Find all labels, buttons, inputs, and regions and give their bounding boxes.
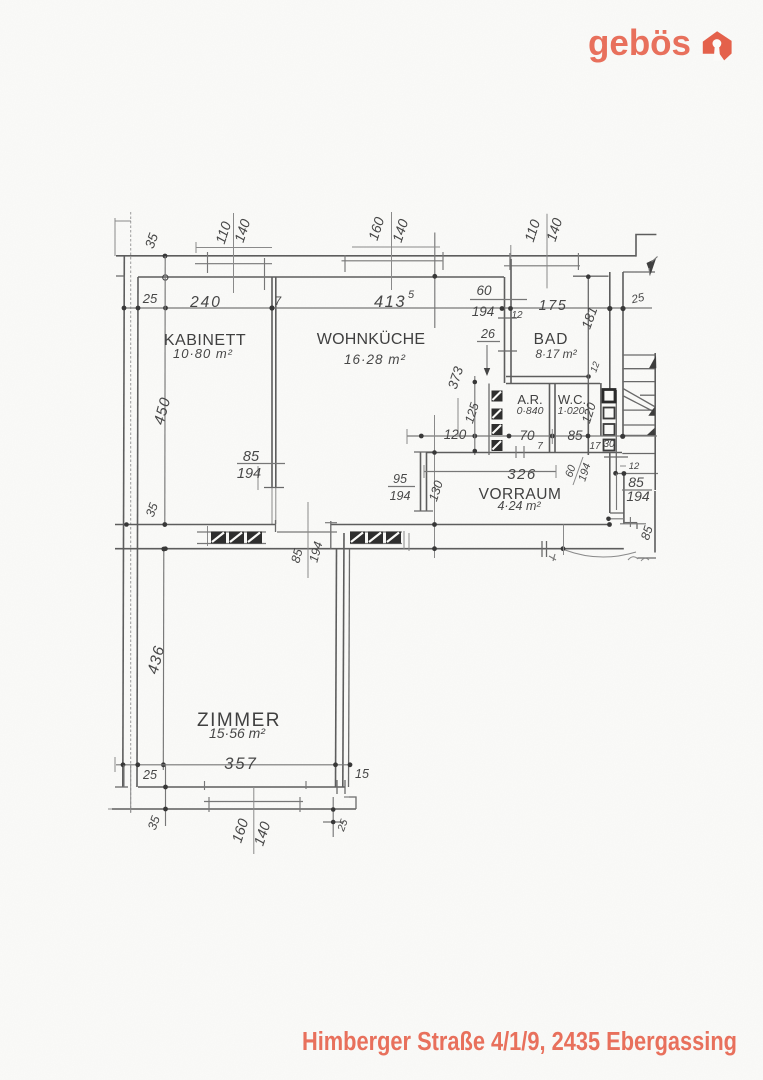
node dot bbox=[432, 450, 437, 455]
node dot bbox=[419, 434, 424, 439]
stair arrow 3 bbox=[647, 428, 655, 435]
svg-text:4·24 m²: 4·24 m² bbox=[497, 499, 541, 513]
node dot bbox=[472, 434, 477, 439]
node dot bbox=[162, 522, 167, 527]
node dot bbox=[136, 306, 141, 311]
svg-text:30: 30 bbox=[603, 439, 615, 450]
door jamb ticks terrace door bbox=[275, 520, 277, 532]
left shaft hatch block 1 bbox=[492, 391, 503, 402]
node dot bbox=[606, 517, 611, 522]
dimension line 326 bbox=[424, 471, 556, 473]
wall top window band line bbox=[195, 263, 272, 265]
node dot bbox=[333, 762, 338, 767]
window group1 edge tick bbox=[207, 526, 209, 546]
mini dim line over window2 bbox=[352, 246, 440, 248]
window sill line group2 bbox=[350, 531, 402, 533]
svg-text:85: 85 bbox=[243, 449, 260, 465]
window hatch block 1 bbox=[211, 532, 226, 544]
label divider 95/194 door bbox=[307, 502, 309, 578]
svg-text:15: 15 bbox=[355, 767, 369, 781]
svg-text:240: 240 bbox=[189, 294, 222, 311]
svg-text:gebös: gebös bbox=[588, 22, 691, 63]
wall top exterior outer line bbox=[116, 255, 636, 257]
wall ZIMMER bottom outer line bbox=[112, 808, 356, 810]
svg-text:95: 95 bbox=[393, 472, 407, 486]
svg-text:10·80 m²: 10·80 m² bbox=[173, 346, 233, 361]
node dot bbox=[163, 306, 168, 311]
wall left exterior faint middle line bbox=[130, 212, 132, 812]
window hatch block 3 bbox=[247, 532, 262, 544]
window2 label divider bbox=[391, 212, 393, 290]
stair tread 5 bbox=[622, 424, 654, 426]
svg-text:5: 5 bbox=[408, 289, 415, 301]
wall between KABINETT and WOHNKUECHE upper part bbox=[271, 277, 273, 488]
node dot bbox=[122, 306, 127, 311]
wall stairwell left (BAD right) bbox=[609, 272, 611, 390]
node dot top wall left bbox=[163, 254, 168, 259]
svg-text:175: 175 bbox=[539, 298, 568, 314]
svg-text:Himberger Straße 4/1/9, 2435 E: Himberger Straße 4/1/9, 2435 Ebergassing bbox=[302, 1028, 737, 1056]
A.R. door jamb ticks bbox=[515, 446, 517, 458]
door jamb tick KABINETT door top bbox=[264, 487, 284, 489]
window lines in ZIMMER bottom wall bbox=[204, 801, 303, 803]
stair tread 2 bbox=[622, 368, 654, 370]
node dot bbox=[124, 522, 129, 527]
stair arrow 2 bbox=[648, 407, 655, 416]
dimension vertical 373 extension bbox=[457, 398, 459, 436]
dimension vertical through VORRAUM door bbox=[434, 415, 436, 558]
node dot bbox=[135, 762, 140, 767]
svg-text:26: 26 bbox=[480, 327, 495, 341]
node dot bbox=[348, 762, 353, 767]
wall left exterior inner line bbox=[137, 277, 138, 787]
node dot bbox=[163, 807, 168, 812]
svg-text:17: 17 bbox=[589, 441, 601, 452]
extension at vorraum bottom right bbox=[563, 525, 565, 556]
wall ZIMMER bottom left hook bbox=[115, 786, 128, 788]
wall top exterior inner line bbox=[138, 276, 504, 278]
svg-text:85: 85 bbox=[567, 428, 583, 443]
dim ticks at 552 436 bbox=[551, 429, 553, 444]
svg-text:7: 7 bbox=[537, 441, 543, 452]
door gap ticks BAD door bbox=[498, 317, 517, 319]
stair tread 7 bbox=[622, 453, 654, 455]
svg-text:WOHNKÜCHE: WOHNKÜCHE bbox=[317, 330, 425, 348]
window1 label divider bbox=[233, 213, 235, 293]
node dot bbox=[473, 449, 478, 454]
window2 left edge ticks bbox=[344, 255, 346, 272]
window sill line group1 bbox=[197, 531, 266, 533]
lintel line over W.C. bbox=[573, 275, 609, 277]
left shaft frame bbox=[488, 384, 490, 456]
stairwell right outer wall bbox=[654, 353, 656, 490]
node dot bbox=[620, 434, 625, 439]
svg-text:12: 12 bbox=[629, 461, 640, 472]
window hatch block 5 bbox=[368, 532, 383, 544]
svg-text:194: 194 bbox=[626, 488, 650, 504]
wall ZIMMER right bbox=[336, 549, 337, 787]
wall top-right inner ledge bbox=[623, 271, 655, 273]
dimension line 357 bbox=[116, 764, 352, 766]
entrance swing arc bbox=[565, 550, 636, 557]
svg-text:194: 194 bbox=[237, 466, 261, 482]
window group2 right edge ticks bbox=[403, 531, 405, 549]
stair arrow 1 bbox=[649, 356, 656, 369]
svg-text:8·17 m²: 8·17 m² bbox=[535, 347, 577, 361]
svg-text:25: 25 bbox=[142, 291, 158, 306]
window2 bottom extension bbox=[253, 787, 255, 854]
svg-text:BAD: BAD bbox=[534, 331, 569, 348]
wall VORRAUM top line bbox=[426, 452, 622, 454]
stair break diagonal bbox=[623, 389, 655, 407]
bottom right small dims bbox=[332, 797, 334, 837]
window3 left edge tick bbox=[509, 253, 511, 270]
step dim corner bottom-right of zimmer bbox=[344, 796, 356, 798]
svg-text:25: 25 bbox=[142, 768, 157, 782]
KABINETT door label divider bbox=[257, 466, 259, 490]
left shaft hatch block 3 bbox=[492, 424, 503, 435]
wall bottom of upper section inner line bbox=[115, 524, 276, 526]
svg-text:15·56 m²: 15·56 m² bbox=[209, 725, 266, 741]
node dot bbox=[163, 546, 168, 551]
window1 top edge tick bbox=[207, 252, 209, 273]
node dot entrance bbox=[613, 471, 618, 476]
dimension line below bottom wall bbox=[108, 808, 112, 810]
dimension vertical 35 bottom left bbox=[165, 765, 167, 826]
node dot BAD bottom bbox=[586, 374, 591, 379]
right shaft square 1 bbox=[603, 390, 615, 403]
entrance door marks bottom bbox=[541, 541, 543, 557]
node dot bbox=[121, 762, 126, 767]
stair tread 4 bbox=[622, 409, 654, 411]
right shaft square 4 bbox=[604, 440, 615, 451]
BAD left wall top extension bbox=[510, 245, 512, 259]
right shaft square 2 bbox=[604, 408, 615, 419]
svg-text:413: 413 bbox=[374, 293, 406, 311]
node dot bbox=[550, 434, 555, 439]
right shaft square 3 bbox=[604, 424, 615, 435]
node dot bbox=[607, 522, 612, 527]
node circle top left bbox=[163, 275, 168, 280]
node dot bbox=[586, 434, 591, 439]
entrance door leaf line bbox=[616, 474, 618, 511]
wall BAD bottom bbox=[506, 376, 590, 378]
wall W.C. right bbox=[587, 383, 589, 455]
entrance door gap walls below bbox=[610, 512, 624, 514]
svg-text:16·28 m²: 16·28 m² bbox=[344, 352, 406, 367]
wall BAD left bbox=[504, 277, 506, 383]
svg-text:70: 70 bbox=[519, 428, 535, 443]
svg-text:60: 60 bbox=[476, 283, 492, 298]
svg-text:120: 120 bbox=[444, 427, 467, 442]
wall VORRAUM left partition bbox=[420, 452, 422, 511]
window3 right edge tick bbox=[577, 253, 579, 270]
left wall verticals below zimmer bbox=[123, 765, 125, 787]
logo gebös bbox=[588, 22, 732, 63]
node dot bbox=[432, 522, 437, 527]
node dot bbox=[561, 546, 566, 551]
node dot bbox=[163, 785, 168, 790]
north arrow head top-right bbox=[647, 259, 657, 275]
dimension vertical 125 bbox=[474, 376, 476, 455]
node dot bbox=[508, 306, 513, 311]
window2 right edge tick bbox=[434, 233, 436, 329]
left top extension hook bbox=[115, 220, 131, 222]
wall top-right step bbox=[636, 235, 656, 257]
window hatch block 2 bbox=[229, 532, 244, 544]
wall left exterior outer line bbox=[123, 256, 125, 787]
svg-text:194: 194 bbox=[390, 489, 411, 503]
dimension vertical 436 bbox=[162, 549, 165, 770]
node dot bbox=[331, 820, 336, 825]
node dot bbox=[607, 306, 612, 311]
building bottom-right corner lines bbox=[638, 557, 657, 559]
wall ZIMMER bottom right end bbox=[349, 797, 356, 809]
svg-text:194: 194 bbox=[472, 304, 495, 319]
left shaft hatch block 4 bbox=[492, 440, 503, 451]
dimension vertical 450 bbox=[164, 256, 166, 527]
window1 right edge tick bbox=[264, 258, 266, 290]
node dot bbox=[269, 305, 274, 310]
svg-text:12: 12 bbox=[511, 310, 523, 321]
entrance door jamb ticks bbox=[604, 456, 628, 458]
dim 26 arrow bbox=[486, 345, 488, 374]
door jamb ticks VORRAUM left bbox=[414, 451, 433, 453]
door threshold line terrace door bbox=[277, 531, 337, 533]
dimension line y436 row 120/70/85 bbox=[407, 435, 657, 437]
stair tread 3 bbox=[622, 381, 654, 383]
node dot bbox=[432, 274, 437, 279]
svg-text:7: 7 bbox=[275, 296, 282, 308]
logo house icon bbox=[703, 31, 732, 60]
wall left top hook bbox=[116, 276, 124, 279]
dimension line main horizontal 240/413.5/175 bbox=[124, 307, 652, 309]
svg-text:326: 326 bbox=[507, 466, 537, 483]
node dot bbox=[473, 380, 478, 385]
node dot bbox=[331, 807, 336, 812]
node dot bbox=[507, 434, 512, 439]
window hatch block 6 bbox=[386, 532, 401, 544]
left shaft hatch block 2 bbox=[492, 409, 503, 420]
door opening thin lines KABINETT wall bbox=[271, 488, 273, 525]
wall A.R. W.C. partition bbox=[549, 383, 551, 452]
stair tread 6 bbox=[622, 434, 654, 436]
svg-text:357: 357 bbox=[224, 755, 258, 773]
window hatch block 4 bbox=[350, 532, 365, 544]
node dot bbox=[161, 547, 166, 552]
mini dim line over window1 bbox=[196, 247, 272, 249]
node dot bbox=[432, 546, 437, 551]
node dot bbox=[500, 306, 505, 311]
node dot bbox=[161, 762, 166, 767]
svg-text:0·840: 0·840 bbox=[517, 405, 544, 417]
wall bottom of upper section outer line bbox=[115, 548, 624, 550]
stair tread 1 bbox=[622, 354, 654, 356]
node dot bbox=[620, 306, 625, 311]
wall ZIMMER bottom inner line bbox=[138, 786, 345, 788]
window3 label divider bbox=[546, 214, 548, 289]
